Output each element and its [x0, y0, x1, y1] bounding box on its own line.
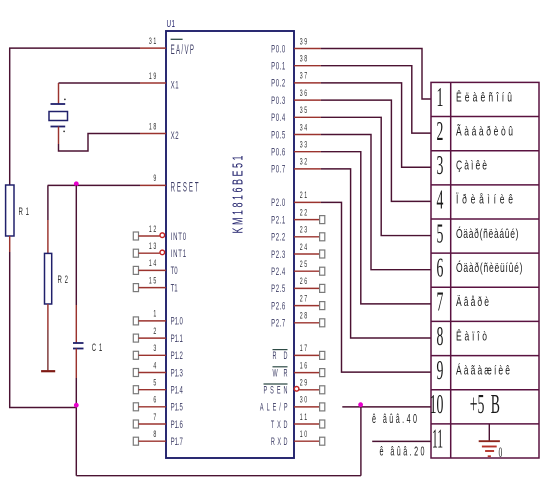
wire P0.7 to table row 8	[321, 169, 431, 338]
svg-text:24: 24	[300, 241, 308, 252]
table outer border	[431, 82, 539, 458]
svg-text:P2.7: P2.7	[271, 317, 285, 329]
svg-text:TXD: TXD	[271, 418, 288, 431]
svg-text:+5: +5	[470, 389, 485, 419]
svg-text:34: 34	[300, 122, 308, 133]
wire P0.2 to table row 3	[321, 83, 431, 167]
svg-text:P2.2: P2.2	[271, 231, 285, 243]
wire P0.5 to table row 6	[321, 135, 431, 270]
pin 3 P1.2 (left)	[133, 351, 138, 359]
pin 29 PSEN (right)	[294, 387, 299, 392]
svg-text:P1.0: P1.0	[171, 315, 183, 327]
pin 7 P1.6 (left)	[133, 420, 138, 428]
wire bottom rail	[75, 408, 77, 476]
pin 14 T0 (left)	[133, 266, 138, 274]
wire P0.6 to table row 7	[321, 152, 431, 304]
svg-text:P0.5: P0.5	[271, 128, 285, 140]
svg-text:P2.3: P2.3	[271, 248, 285, 260]
wire RESET to R2	[47, 185, 49, 220]
svg-text:1: 1	[437, 82, 444, 112]
pin 1 P1.0 (left)	[133, 317, 138, 325]
pin 9 RESET (left)	[140, 184, 166, 186]
table row divider	[431, 320, 539, 322]
wire +5V to table row 10	[342, 406, 431, 408]
svg-text:11: 11	[432, 423, 443, 454]
node +5V junction	[358, 402, 363, 407]
svg-text:T1: T1	[171, 281, 178, 293]
overline over WR	[273, 366, 288, 368]
svg-text:2: 2	[153, 325, 156, 336]
pin 5 P1.4 (left)	[133, 386, 138, 394]
svg-text:5: 5	[153, 377, 156, 388]
svg-text:U1: U1	[167, 17, 176, 29]
table row divider	[431, 218, 539, 220]
resistor R1	[6, 185, 14, 236]
table row divider	[431, 252, 539, 254]
svg-text:X1: X1	[171, 79, 179, 91]
svg-text:Óäàð(ñëàáûé): Óäàð(ñëàáûé)	[456, 226, 518, 241]
pin 13 INT1 (left)	[133, 249, 138, 257]
svg-text:9: 9	[437, 355, 444, 385]
svg-text:P2.0: P2.0	[271, 196, 285, 208]
svg-text:Çàìêè: Çàìêè	[456, 159, 487, 173]
svg-text:4: 4	[437, 184, 444, 214]
crystal ZQ bottom plate	[51, 126, 66, 128]
svg-text:Äâåðè: Äâåðè	[456, 296, 489, 310]
node bottom-left junction	[74, 403, 79, 408]
wire to table row 11 (to pin 20)	[372, 440, 431, 442]
svg-text:3: 3	[437, 150, 444, 180]
overline over EA of pin 31	[171, 38, 183, 40]
svg-text:P2.6: P2.6	[271, 299, 285, 311]
svg-text:P0.1: P0.1	[271, 60, 285, 72]
svg-text:P0.4: P0.4	[271, 111, 285, 123]
overline over RD	[273, 349, 288, 351]
table row divider	[431, 116, 539, 118]
wire P0.3 to table row 4	[321, 100, 431, 201]
svg-text:8: 8	[437, 321, 444, 351]
pin 30 ALE/P (right)	[294, 406, 320, 408]
pin 21 P2.0 (right)	[294, 201, 321, 203]
svg-text:9: 9	[153, 173, 156, 184]
svg-text:3: 3	[153, 342, 156, 353]
wire left rail vertical to R1	[9, 48, 11, 185]
svg-text:P1.5: P1.5	[171, 401, 183, 413]
svg-text:P1.1: P1.1	[171, 332, 183, 344]
pin 39 P0.0 (right)	[294, 48, 321, 50]
overline over PSEN	[264, 383, 288, 385]
pin 2 P1.1 (left)	[133, 334, 138, 342]
svg-text:14: 14	[149, 258, 157, 269]
pin 19 X1 (left)	[140, 82, 166, 84]
dot mark near crystal top	[64, 99, 66, 101]
dot mark near crystal bottom	[63, 131, 65, 133]
svg-text:Êëàêñîíû: Êëàêñîíû	[456, 90, 512, 105]
pin 37 P0.2 (right)	[294, 82, 321, 84]
table row divider	[431, 423, 539, 425]
pin 11 TXD (right)	[294, 423, 320, 425]
wire P0.1 to table row 2	[321, 66, 431, 133]
wire P2.0 to table row 9	[321, 202, 431, 372]
svg-text:B: B	[491, 389, 500, 419]
pin 22 P2.1 (right)	[294, 219, 320, 221]
svg-text:Êàïîò: Êàïîò	[456, 329, 487, 344]
svg-text:7: 7	[437, 287, 444, 317]
table row divider	[431, 184, 539, 186]
wire X1 to crystal	[59, 82, 141, 84]
pin 10 RXD (right)	[294, 440, 320, 442]
svg-text:X2: X2	[171, 129, 179, 141]
svg-text:P0.6: P0.6	[271, 146, 285, 158]
pin 33 P0.6 (right)	[294, 151, 321, 153]
svg-text:P0.7: P0.7	[271, 163, 285, 175]
svg-text:4: 4	[153, 360, 156, 371]
svg-text:EA/VP: EA/VP	[171, 44, 194, 58]
wire RESET net	[48, 184, 140, 186]
svg-text:INT0: INT0	[171, 230, 187, 242]
svg-text:RXD: RXD	[271, 435, 288, 448]
pin 12 INT0 (left)	[133, 232, 138, 240]
table row divider	[431, 286, 539, 288]
pin 25 P2.4 (right)	[294, 270, 320, 272]
svg-text:RESET: RESET	[171, 181, 199, 195]
svg-text:5: 5	[437, 218, 444, 248]
pin 17 RD (right)	[294, 354, 320, 356]
wire P0.4 to table row 5	[321, 117, 431, 235]
pin 38 P0.1 (right)	[294, 65, 321, 67]
wire crystal to X2	[58, 127, 60, 145]
svg-text:P1.2: P1.2	[171, 349, 183, 361]
wire P0.0 to table row 1	[321, 49, 431, 99]
capacitor C1 top plate	[73, 342, 84, 344]
table column divider	[450, 82, 452, 458]
svg-text:1: 1	[153, 308, 156, 319]
pin 4 P1.3 (left)	[133, 369, 138, 377]
svg-text:6: 6	[153, 394, 156, 405]
svg-text:P2.4: P2.4	[271, 265, 285, 277]
pin 28 P2.7 (right)	[294, 322, 320, 324]
pin 36 P0.3 (right)	[294, 99, 321, 101]
pin 18 X2 (left)	[140, 133, 166, 135]
capacitor C1 bottom plate	[73, 348, 84, 350]
svg-text:P1.4: P1.4	[171, 384, 183, 396]
svg-text:P0.2: P0.2	[271, 77, 285, 89]
svg-text:8: 8	[153, 428, 156, 439]
svg-text:P1.7: P1.7	[171, 435, 183, 447]
crystal ZQ top plate	[51, 103, 66, 105]
pin 27 P2.6 (right)	[294, 305, 320, 307]
svg-text:6: 6	[437, 253, 444, 283]
svg-text:0: 0	[499, 443, 503, 461]
wire below R1 to bottom node	[9, 236, 11, 252]
svg-text:P1.6: P1.6	[171, 418, 183, 430]
pin 32 P0.7 (right)	[294, 168, 321, 170]
pin 35 P0.4 (right)	[294, 116, 321, 118]
pin 15 T1 (left)	[133, 284, 138, 292]
node RESET junction	[74, 181, 79, 186]
wire C1 to bottom node	[75, 349, 77, 379]
svg-text:Óäàð(ñèëüíûé): Óäàð(ñèëüíûé)	[456, 260, 522, 275]
svg-text:P2.5: P2.5	[271, 282, 285, 294]
ground	[488, 424, 490, 441]
pin 6 P1.5 (left)	[133, 403, 138, 411]
U1 microcontroller KM1816BE51 body	[166, 31, 294, 458]
svg-text:INT1: INT1	[171, 247, 187, 259]
pin 31 EA/VP (left)	[140, 47, 166, 49]
wire EA/VP to left rail	[9, 47, 140, 49]
pin 24 P2.3 (right)	[294, 253, 320, 255]
table row divider	[431, 389, 539, 391]
crystal ZQ body	[49, 112, 68, 121]
pin 26 P2.5 (right)	[294, 287, 320, 289]
pin 16 WR (right)	[294, 372, 320, 374]
pin 8 P1.7 (left)	[133, 437, 138, 445]
table row divider	[431, 355, 539, 357]
pin 23 P2.2 (right)	[294, 236, 320, 238]
svg-text:P2.1: P2.1	[271, 213, 285, 225]
svg-text:2: 2	[437, 116, 444, 146]
table row divider	[431, 150, 539, 152]
resistor R2	[45, 253, 52, 304]
pin 34 P0.5 (right)	[294, 134, 321, 136]
svg-text:10: 10	[430, 389, 444, 419]
svg-text:P0.0: P0.0	[271, 42, 285, 54]
svg-text:7: 7	[153, 411, 156, 422]
svg-text:P0.3: P0.3	[271, 94, 285, 106]
wire below R2	[47, 304, 49, 330]
terminal bar below R2	[41, 370, 55, 372]
wire RESET junction down to C1	[75, 185, 77, 305]
svg-text:T0: T0	[171, 264, 178, 276]
svg-text:P1.3: P1.3	[171, 366, 183, 378]
